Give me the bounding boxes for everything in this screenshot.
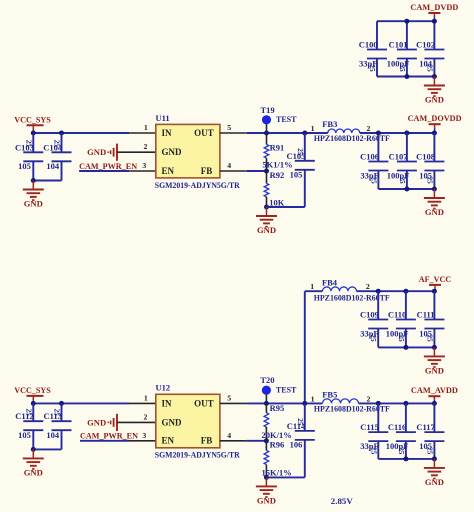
ground: [424, 459, 445, 487]
wire: [220, 440, 247, 442]
resistor R91: [264, 133, 269, 171]
capacitor C113: [43, 409, 71, 440]
svg-text:2: 2: [367, 124, 371, 133]
capacitor C108: [416, 152, 444, 185]
wire: [376, 59, 378, 77]
wire: [405, 291, 407, 319]
svg-text:FB4: FB4: [322, 277, 338, 287]
capacitor C117: [416, 422, 444, 455]
svg-text:104: 104: [46, 430, 60, 440]
wire: [377, 441, 379, 459]
svg-text:FB5: FB5: [322, 390, 337, 400]
svg-text:T20: T20: [260, 375, 274, 385]
ground: [256, 477, 277, 505]
svg-text:25: 25: [369, 335, 377, 343]
resistor R96: [264, 441, 269, 478]
wire: [377, 329, 379, 348]
junction: [59, 401, 64, 406]
wire: [80, 440, 129, 442]
svg-text:104: 104: [46, 161, 60, 171]
wire: [304, 403, 306, 431]
capacitor C112: [15, 409, 43, 440]
svg-text:1: 1: [144, 123, 148, 132]
svg-text:R96: R96: [270, 440, 285, 450]
power port AF_VCC: [419, 274, 451, 291]
capacitor C102: [416, 40, 444, 73]
junction: [432, 345, 437, 350]
wire: [433, 21, 435, 49]
svg-text:CAM_DVDD: CAM_DVDD: [410, 2, 458, 12]
svg-text:OUT: OUT: [194, 398, 214, 408]
capacitor C103: [15, 140, 43, 171]
junction: [376, 401, 381, 406]
wire: [247, 440, 267, 442]
wire: [376, 21, 378, 49]
svg-text:VCC_SYS: VCC_SYS: [14, 114, 51, 124]
test point T19: [261, 105, 298, 133]
junction: [403, 401, 408, 406]
power port VCC_SYS: [14, 385, 51, 404]
junction: [432, 456, 437, 461]
ferrite bead FB4: [323, 287, 357, 291]
wire: [247, 402, 323, 404]
wire: [33, 402, 129, 404]
wire: [304, 133, 306, 161]
wire: [405, 441, 407, 459]
svg-text:1: 1: [311, 394, 315, 403]
wire: [33, 132, 129, 134]
svg-text:TEST: TEST: [276, 386, 297, 395]
svg-text:IN: IN: [162, 398, 173, 408]
wire: [377, 20, 434, 22]
wire: [304, 170, 306, 207]
wire: [129, 402, 156, 404]
ferrite bead FB5: [323, 399, 359, 403]
svg-text:25: 25: [368, 65, 376, 73]
wire: [433, 133, 435, 162]
wire: [377, 291, 379, 319]
wire: [406, 171, 408, 190]
svg-text:25: 25: [425, 335, 433, 343]
junction: [404, 19, 409, 24]
resistor R92: [264, 171, 269, 207]
junction: [31, 178, 36, 183]
wire: [433, 291, 435, 319]
wire: [359, 402, 435, 404]
svg-text:5: 5: [227, 123, 231, 132]
svg-text:FB: FB: [201, 436, 213, 446]
svg-text:U12: U12: [156, 383, 171, 393]
junction: [432, 401, 437, 406]
wire: [61, 133, 63, 152]
power port GND (pin 2): [87, 414, 156, 431]
svg-text:2: 2: [367, 394, 371, 403]
svg-text:5K1/1%: 5K1/1%: [262, 159, 292, 169]
wire: [79, 170, 129, 172]
junction: [404, 187, 409, 192]
power port CAM_AVDD: [411, 385, 458, 403]
svg-text:IN: IN: [162, 128, 173, 138]
power port VCC_SYS: [14, 114, 51, 133]
junction: [302, 131, 307, 136]
svg-text:25: 25: [398, 65, 406, 73]
capacitor C111: [417, 310, 445, 343]
wire (riser to FB4): [304, 291, 306, 403]
svg-text:4: 4: [227, 161, 231, 170]
wire: [357, 290, 435, 292]
wire: [406, 133, 408, 162]
svg-text:GND: GND: [425, 94, 444, 104]
svg-text:GND: GND: [425, 477, 444, 487]
wire: [433, 441, 435, 459]
svg-text:GND: GND: [87, 147, 106, 157]
wire: [129, 440, 156, 442]
regulator U12: [155, 383, 241, 460]
ground: [23, 449, 44, 477]
wire: [405, 329, 407, 348]
capacitor C110: [386, 310, 416, 343]
wire: [377, 76, 434, 78]
svg-text:C102: C102: [416, 40, 435, 50]
svg-text:T19: T19: [261, 105, 275, 115]
ground: [424, 189, 445, 217]
resistor R95: [264, 403, 269, 440]
svg-text:SGM2019-ADJYN5G/TR: SGM2019-ADJYN5G/TR: [155, 450, 241, 460]
wire: [220, 132, 247, 134]
svg-text:GND: GND: [87, 417, 106, 427]
svg-text:AF_VCC: AF_VCC: [419, 274, 451, 284]
junction: [432, 74, 437, 79]
svg-text:25: 25: [24, 140, 32, 148]
wire: [266, 476, 304, 478]
junction: [264, 131, 269, 136]
junction: [432, 131, 437, 136]
svg-text:EN: EN: [162, 166, 175, 176]
wire: [61, 161, 63, 180]
svg-text:106: 106: [290, 440, 303, 450]
wire: [220, 170, 247, 172]
svg-text:C100: C100: [359, 40, 378, 50]
wire: [378, 458, 434, 460]
capacitor C114: [287, 418, 315, 449]
svg-text:C107: C107: [389, 152, 409, 162]
wire: [220, 402, 247, 404]
wire: [61, 403, 63, 421]
wire: [32, 161, 34, 180]
svg-text:GND: GND: [257, 495, 276, 505]
svg-text:SGM2019-ADJYN5G/TR: SGM2019-ADJYN5G/TR: [155, 180, 241, 190]
svg-text:C106: C106: [360, 152, 379, 162]
junction: [31, 401, 36, 406]
svg-text:105: 105: [18, 161, 31, 171]
junction: [432, 289, 437, 294]
capacitor C116: [386, 422, 416, 455]
power port CAM_DVDD: [410, 2, 458, 21]
power port GND (pin 2): [87, 144, 156, 161]
junction: [264, 205, 269, 210]
wire: [61, 430, 63, 449]
svg-text:C116: C116: [388, 422, 406, 432]
svg-text:R92: R92: [270, 170, 285, 180]
wire: [129, 170, 156, 172]
ground: [23, 181, 44, 209]
svg-text:C117: C117: [416, 422, 435, 432]
svg-text:R91: R91: [270, 142, 285, 152]
svg-text:25: 25: [397, 447, 405, 455]
junction: [403, 456, 408, 461]
svg-text:25: 25: [296, 418, 304, 426]
junction: [31, 131, 36, 136]
wire: [32, 403, 34, 421]
svg-text:105: 105: [18, 430, 31, 440]
wire: [305, 290, 323, 292]
svg-text:U11: U11: [156, 113, 170, 123]
junction: [404, 131, 409, 136]
svg-text:GND: GND: [162, 417, 183, 427]
svg-text:C111: C111: [417, 310, 435, 320]
svg-text:2: 2: [143, 412, 147, 421]
capacitor C105: [287, 148, 315, 179]
ferrite bead FB3: [328, 129, 360, 133]
junction: [403, 345, 408, 350]
svg-text:2.85V: 2.85V: [331, 496, 354, 506]
capacitor C106: [360, 152, 388, 185]
wire: [32, 430, 34, 449]
wire: [377, 403, 379, 432]
wire: [433, 329, 435, 348]
svg-text:3: 3: [142, 431, 146, 440]
svg-text:3: 3: [142, 161, 146, 170]
capacitor C109: [360, 310, 388, 343]
svg-text:C109: C109: [360, 310, 379, 320]
svg-text:CAM_PWR_EN: CAM_PWR_EN: [79, 161, 138, 171]
wire: [433, 171, 435, 190]
wire: [129, 132, 156, 134]
svg-text:GND: GND: [24, 198, 43, 208]
junction: [264, 475, 269, 480]
junction: [31, 447, 36, 452]
wire: [377, 171, 379, 190]
wire: [33, 180, 61, 182]
power port CAM_DOVDD: [408, 113, 462, 133]
junction: [376, 289, 381, 294]
capacitor C100: [359, 40, 387, 73]
svg-text:GND: GND: [425, 365, 444, 375]
svg-text:CAM_PWR_EN: CAM_PWR_EN: [80, 431, 139, 441]
svg-text:FB: FB: [201, 166, 213, 176]
test point T20: [260, 375, 297, 403]
junction: [404, 74, 409, 79]
svg-text:C101: C101: [389, 40, 408, 50]
svg-text:R95: R95: [270, 403, 285, 413]
capacitor C101: [387, 40, 417, 73]
svg-text:CAM_AVDD: CAM_AVDD: [411, 385, 458, 395]
wire: [247, 132, 328, 134]
wire: [247, 170, 267, 172]
svg-text:2: 2: [366, 282, 370, 291]
svg-text:GND: GND: [257, 225, 276, 235]
wire: [267, 206, 305, 208]
svg-text:25: 25: [397, 335, 405, 343]
svg-text:4: 4: [227, 431, 231, 440]
svg-text:C110: C110: [388, 310, 406, 320]
svg-text:25: 25: [425, 177, 433, 185]
wire: [433, 59, 435, 77]
svg-text:1: 1: [144, 393, 148, 402]
svg-text:25: 25: [296, 148, 304, 156]
capacitor C104: [43, 140, 71, 171]
junction: [432, 187, 437, 192]
wire: [378, 346, 434, 348]
wire: [378, 188, 434, 190]
svg-text:25: 25: [398, 177, 406, 185]
ground: [256, 207, 277, 235]
ground: [424, 347, 445, 375]
svg-text:25: 25: [425, 65, 433, 73]
wire: [33, 448, 61, 450]
svg-text:C108: C108: [416, 152, 435, 162]
svg-text:25: 25: [24, 409, 32, 417]
svg-text:GND: GND: [425, 207, 444, 217]
wire: [32, 133, 34, 152]
svg-text:25: 25: [425, 447, 433, 455]
wire: [433, 403, 435, 432]
capacitor C115: [360, 422, 388, 455]
svg-text:105: 105: [290, 170, 303, 180]
wire: [405, 403, 407, 432]
junction: [302, 401, 307, 406]
svg-text:GND: GND: [24, 467, 43, 477]
svg-text:25: 25: [53, 140, 61, 148]
svg-text:VCC_SYS: VCC_SYS: [14, 385, 51, 395]
junction: [264, 401, 269, 406]
svg-text:OUT: OUT: [194, 128, 214, 138]
wire: [406, 21, 408, 49]
svg-text:5: 5: [227, 394, 231, 403]
capacitor C107: [387, 152, 417, 185]
wire: [304, 440, 306, 478]
svg-text:FB3: FB3: [322, 119, 337, 129]
svg-text:CAM_DOVDD: CAM_DOVDD: [408, 113, 462, 123]
junction: [59, 131, 64, 136]
ground: [424, 77, 445, 105]
svg-text:TEST: TEST: [276, 115, 297, 124]
junction: [432, 19, 437, 24]
svg-text:C115: C115: [360, 422, 378, 432]
junction: [264, 438, 269, 443]
wire: [406, 59, 408, 77]
svg-text:2: 2: [143, 142, 147, 151]
junction: [264, 169, 269, 174]
svg-text:25: 25: [53, 409, 61, 417]
svg-text:EN: EN: [162, 436, 175, 446]
wire: [360, 132, 435, 134]
svg-text:1: 1: [311, 124, 315, 133]
svg-text:1: 1: [310, 282, 314, 291]
svg-text:25: 25: [369, 177, 377, 185]
svg-text:GND: GND: [162, 147, 183, 157]
wire: [377, 133, 379, 162]
svg-text:25: 25: [369, 447, 377, 455]
junction: [403, 289, 408, 294]
junction: [376, 131, 381, 136]
regulator U11: [155, 113, 241, 190]
